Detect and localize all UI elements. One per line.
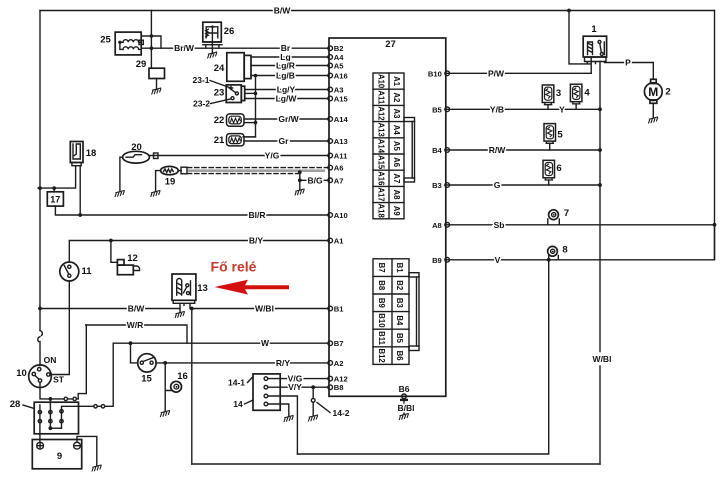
svg-text:A1: A1: [334, 237, 344, 246]
diode 4: [570, 84, 590, 109]
wire P relay1 to motor: [605, 57, 654, 79]
wire V/G to A12: [268, 373, 329, 383]
terminal A12: [328, 376, 333, 381]
wire 11 bottom to ignition switch: [50, 281, 69, 375]
svg-text:A3: A3: [392, 109, 401, 120]
terminal B5: [445, 107, 450, 112]
svg-text:24: 24: [214, 63, 225, 74]
wire outer bottom bus: [192, 463, 600, 465]
wire W to B7: [113, 338, 329, 348]
wire R/Y to A2: [156, 358, 329, 368]
svg-text:B5: B5: [395, 333, 404, 344]
label 14 leader: [233, 399, 253, 409]
svg-text:14-2: 14-2: [332, 408, 349, 418]
svg-text:B8: B8: [377, 280, 386, 291]
svg-text:B6: B6: [399, 384, 410, 394]
svg-text:A17: A17: [376, 187, 385, 201]
svg-text:B7: B7: [334, 339, 344, 348]
svg-text:A10: A10: [334, 211, 348, 220]
ignition switch 10: [16, 355, 65, 388]
svg-text:7: 7: [564, 208, 569, 219]
relay 13 Fő relé: [172, 274, 208, 305]
svg-text:18: 18: [86, 148, 97, 159]
label 23-1 leader: [192, 75, 229, 88]
sensor 7: [548, 208, 569, 225]
svg-text:1: 1: [591, 24, 597, 35]
label 23-2 leader: [193, 99, 231, 109]
wire V B9 to right border: [445, 225, 715, 265]
svg-text:14: 14: [233, 399, 243, 409]
svg-text:A5: A5: [392, 141, 401, 152]
terminal 14-2 to ground: [308, 387, 349, 421]
wire 21 upper pin from bus: [244, 136, 256, 138]
terminal A7: [328, 178, 333, 183]
igniter 12: [111, 241, 140, 275]
svg-text:A8: A8: [432, 221, 442, 230]
svg-text:B6: B6: [395, 351, 404, 362]
wire W branch down to switch 15: [131, 343, 138, 363]
battery 9: [32, 440, 81, 469]
red arrow: [215, 280, 290, 295]
wire B/Y circle11 to A1: [69, 236, 329, 263]
wire 28 pin2: [49, 399, 62, 430]
svg-text:P/W: P/W: [488, 68, 505, 78]
shielded wire dashed sheath bottom: [188, 173, 300, 175]
label 14-1 leader: [228, 377, 253, 388]
node V tap: [547, 258, 551, 262]
svg-text:A6: A6: [334, 164, 344, 173]
svg-text:Bl/R: Bl/R: [249, 210, 266, 220]
terminal B7: [328, 341, 333, 346]
shielded wire dashed sheath top: [188, 167, 330, 169]
svg-text:B9: B9: [432, 256, 442, 265]
svg-text:A16: A16: [376, 171, 385, 186]
wire Lg/R to A5: [251, 61, 329, 71]
svg-text:Sb: Sb: [494, 220, 505, 230]
svg-text:9: 9: [57, 451, 62, 462]
svg-text:A15: A15: [334, 95, 349, 104]
svg-text:B4: B4: [432, 146, 442, 155]
wire Lg/W to A15: [245, 94, 329, 104]
svg-text:5: 5: [557, 130, 563, 141]
wire Lg to A4: [251, 52, 329, 62]
wire right border down to Sb/V junction: [714, 11, 716, 260]
svg-text:B1: B1: [395, 263, 404, 274]
svg-text:23-1: 23-1: [192, 75, 209, 85]
sensor 19: [161, 166, 179, 187]
terminal A3: [328, 87, 333, 92]
terminal A16: [328, 73, 333, 78]
svg-text:23: 23: [214, 88, 225, 99]
box 17: [47, 188, 63, 206]
wire 20 left to ground: [120, 157, 123, 191]
wire Gr/W to A14: [244, 114, 329, 124]
terminal A11: [328, 153, 333, 158]
distributor 11: [60, 262, 92, 281]
ECU B-grid side bracket: [409, 273, 419, 351]
svg-text:W: W: [261, 338, 270, 348]
svg-text:B4: B4: [395, 315, 404, 326]
terminal A1: [328, 238, 333, 243]
svg-text:A16: A16: [334, 72, 348, 81]
wire W/Bl relay13 to B1: [192, 304, 329, 314]
svg-text:Gr: Gr: [279, 136, 290, 146]
wire 23 lever to bus: [245, 92, 256, 94]
wire P/W B10 to relay1: [445, 68, 591, 78]
wire relay1 right pin down (W/Bl trunk): [599, 62, 601, 465]
relay 13 right pin and node: [189, 303, 191, 308]
svg-text:13: 13: [197, 283, 208, 294]
terminal A6: [328, 165, 333, 170]
svg-text:Fő relé: Fő relé: [211, 259, 257, 275]
svg-text:B/Bl: B/Bl: [398, 403, 415, 413]
svg-text:A2: A2: [392, 92, 401, 103]
svg-text:A4: A4: [392, 125, 401, 136]
sensor 20: [123, 142, 150, 163]
motor 2: [644, 79, 670, 103]
wire common bus 23/22/21: [243, 76, 256, 137]
svg-text:ST: ST: [53, 375, 65, 385]
svg-text:Br/W: Br/W: [174, 43, 195, 53]
terminal A5: [328, 63, 333, 68]
connector gap symbol on left border: [38, 331, 43, 365]
wire 14 pin4 to ground: [268, 404, 289, 417]
switch 15: [138, 354, 156, 385]
svg-text:A7: A7: [334, 176, 344, 185]
svg-text:B1: B1: [334, 305, 344, 314]
svg-text:B7: B7: [377, 263, 386, 273]
connector square on 19 output: [178, 167, 187, 174]
injector coil 21: [214, 134, 244, 146]
svg-text:R/Y: R/Y: [276, 358, 291, 368]
terminal B6 under ECU: [398, 384, 415, 420]
svg-text:W/R: W/R: [127, 320, 144, 330]
ground under 16: [160, 410, 170, 417]
wire 18 left pin to border junction: [38, 166, 76, 188]
svg-text:B5: B5: [432, 105, 442, 114]
svg-text:28: 28: [10, 399, 21, 410]
svg-text:B/Y: B/Y: [249, 236, 264, 246]
svg-text:A13: A13: [376, 123, 385, 138]
ECU left terminals: [328, 44, 349, 392]
svg-text:A8: A8: [392, 190, 401, 201]
svg-text:A11: A11: [376, 90, 385, 105]
svg-text:A9: A9: [392, 206, 401, 217]
terminal A15: [328, 96, 333, 101]
wire Sb A8 to right border: [445, 220, 715, 230]
svg-text:B/W: B/W: [128, 304, 146, 314]
ECU A-grid labels: [376, 74, 401, 219]
terminal B8: [328, 385, 333, 390]
wire Y/G to A11: [149, 151, 329, 161]
ECU A-grid side bracket: [404, 118, 415, 183]
svg-text:29: 29: [136, 59, 147, 70]
svg-text:Lg/B: Lg/B: [276, 71, 295, 81]
svg-text:6: 6: [556, 163, 561, 174]
svg-text:B10: B10: [428, 69, 442, 78]
wire Gr to A13: [244, 136, 329, 146]
wire 22 lower pin to bus: [244, 122, 256, 124]
svg-text:Y/G: Y/G: [265, 151, 280, 161]
svg-text:B/W: B/W: [274, 6, 292, 16]
shielded wire to A6 (gray core): [188, 169, 326, 172]
ground under 26: [211, 48, 213, 54]
wire 8-tap down to inner bottom bus: [297, 260, 548, 454]
svg-text:27: 27: [385, 39, 396, 50]
bulb 16: [165, 363, 188, 412]
svg-text:A2: A2: [334, 359, 344, 368]
svg-text:8: 8: [562, 245, 567, 256]
svg-text:A15: A15: [376, 155, 385, 170]
wire relay13 down to bottom bus: [191, 309, 193, 465]
wire from B/W bus down to relay 1 left pin: [569, 11, 591, 74]
node 14-2 tap: [311, 385, 315, 389]
terminal B10: [445, 71, 450, 76]
svg-text:A12: A12: [376, 106, 385, 121]
ECU box 27: [329, 38, 446, 396]
wire 19 left to ground: [156, 171, 161, 192]
svg-text:17: 17: [50, 195, 60, 205]
terminal B3: [445, 183, 450, 188]
svg-text:20: 20: [131, 142, 142, 153]
svg-text:A14: A14: [376, 139, 385, 154]
wire shield to ground and B/G to A7: [299, 172, 301, 190]
svg-text:R/W: R/W: [489, 145, 507, 155]
terminal A14: [328, 117, 333, 122]
svg-text:A6: A6: [392, 157, 401, 168]
terminal B1: [328, 306, 333, 311]
switch 23: [214, 85, 245, 103]
wire 14 pin3 to bottom bus: [268, 396, 298, 454]
svg-text:A1: A1: [392, 76, 401, 87]
ECU A-pin grid: [373, 73, 404, 219]
svg-text:V: V: [495, 255, 501, 265]
node on border: [38, 186, 42, 190]
svg-text:A3: A3: [334, 86, 344, 95]
ECU B-grid labels: [377, 263, 404, 364]
wire R/W B4: [445, 145, 600, 155]
svg-text:Lg/R: Lg/R: [276, 61, 295, 71]
wire V/Y to B8: [268, 382, 329, 392]
ground under 29: [156, 79, 158, 90]
svg-text:2: 2: [665, 87, 670, 98]
terminal B4: [445, 148, 450, 153]
wire Bl/R from 17 to A10: [55, 206, 329, 220]
sensor 18: [70, 142, 96, 166]
condenser 26: [203, 22, 234, 48]
svg-text:16: 16: [177, 371, 188, 382]
svg-text:4: 4: [584, 88, 590, 99]
svg-text:B/G: B/G: [307, 175, 323, 185]
wire battery minus to ground: [77, 436, 97, 466]
svg-text:Gr/W: Gr/W: [278, 114, 299, 124]
svg-text:26: 26: [224, 26, 235, 37]
wire Lg/Y to A3: [245, 85, 329, 95]
wire W/R: [86, 320, 187, 343]
svg-text:Y/B: Y/B: [490, 104, 504, 114]
svg-text:3: 3: [556, 88, 561, 99]
svg-text:W/Bl: W/Bl: [593, 354, 612, 364]
wire relay25 to junction / loop: [141, 11, 161, 69]
svg-text:B12: B12: [377, 348, 386, 363]
wire Lg/B to A16: [251, 71, 329, 81]
svg-text:A11: A11: [334, 152, 348, 161]
wire left border (B/W down left side): [39, 11, 41, 331]
terminal A13: [328, 139, 333, 144]
svg-text:Y: Y: [559, 105, 565, 115]
terminal A4: [328, 55, 333, 60]
svg-text:G: G: [494, 180, 501, 190]
wire switch ST to connector row: [40, 382, 50, 399]
svg-text:B8: B8: [334, 383, 344, 392]
svg-text:10: 10: [16, 368, 27, 379]
svg-text:21: 21: [214, 135, 225, 146]
sensor 6: [543, 160, 562, 185]
svg-text:11: 11: [81, 266, 92, 277]
svg-text:B3: B3: [395, 298, 404, 309]
sensor 8: [548, 245, 568, 260]
svg-text:P: P: [625, 57, 631, 67]
terminal A2: [328, 361, 333, 366]
svg-text:A14: A14: [334, 115, 349, 124]
injector coil 22: [214, 114, 244, 126]
svg-text:15: 15: [141, 374, 152, 385]
svg-text:ON: ON: [44, 355, 57, 365]
svg-text:B2: B2: [334, 44, 344, 53]
svg-text:A7: A7: [392, 173, 401, 183]
svg-text:A5: A5: [334, 62, 344, 71]
svg-text:A13: A13: [334, 137, 348, 146]
connector 14: [253, 374, 280, 410]
wire B/W top bus: [40, 6, 715, 16]
terminal A8: [445, 223, 450, 228]
relay 13 left pin to ground: [179, 303, 181, 312]
wire G B3: [445, 180, 600, 190]
resistor 29: [136, 59, 165, 79]
svg-text:A18: A18: [376, 204, 385, 219]
terminal A10: [328, 213, 333, 218]
svg-text:12: 12: [127, 253, 138, 264]
svg-text:B3: B3: [432, 181, 442, 190]
terminal B9: [445, 258, 450, 263]
wire 28 pin3: [60, 343, 113, 428]
wire Br/W / Br line to B2: [141, 43, 329, 53]
sensor 5: [544, 124, 563, 150]
relay 25: [100, 32, 143, 55]
connector pair on ST wire: [50, 325, 86, 401]
wire B/W to relay 13: [40, 304, 180, 314]
svg-text:14-1: 14-1: [228, 378, 245, 388]
ground under motor: [652, 103, 654, 118]
wire 28 pin1 (battery +): [38, 405, 41, 442]
svg-text:B2: B2: [395, 280, 404, 291]
ECU right terminals: [428, 69, 450, 264]
svg-text:25: 25: [100, 35, 111, 46]
svg-text:V/Y: V/Y: [288, 382, 302, 392]
relay 1: [583, 24, 606, 64]
svg-text:A10: A10: [376, 74, 385, 89]
diode 3: [542, 85, 561, 109]
connector 24: [214, 53, 251, 82]
svg-text:23-2: 23-2: [193, 99, 210, 109]
wire 18 right pin down to Bl/R: [79, 166, 81, 215]
svg-text:M: M: [648, 85, 658, 99]
svg-text:W/Bl: W/Bl: [255, 304, 274, 314]
node bus on Lg/B: [254, 74, 258, 78]
svg-text:B10: B10: [377, 313, 386, 328]
node junction top B/W to relay 1: [567, 9, 571, 13]
node branch to 12: [109, 239, 113, 243]
ECU B-pin grid: [373, 259, 409, 365]
svg-text:19: 19: [165, 177, 176, 188]
node 17 stub: [52, 186, 56, 190]
wire Y/B B5 to diodes: [445, 104, 600, 114]
svg-text:Lg/W: Lg/W: [276, 94, 298, 104]
svg-text:22: 22: [214, 115, 225, 126]
terminal B2: [328, 46, 333, 51]
connector block 28: [10, 399, 79, 434]
svg-text:B9: B9: [377, 298, 386, 309]
node shield tap: [298, 170, 302, 174]
svg-text:B11: B11: [377, 331, 386, 346]
